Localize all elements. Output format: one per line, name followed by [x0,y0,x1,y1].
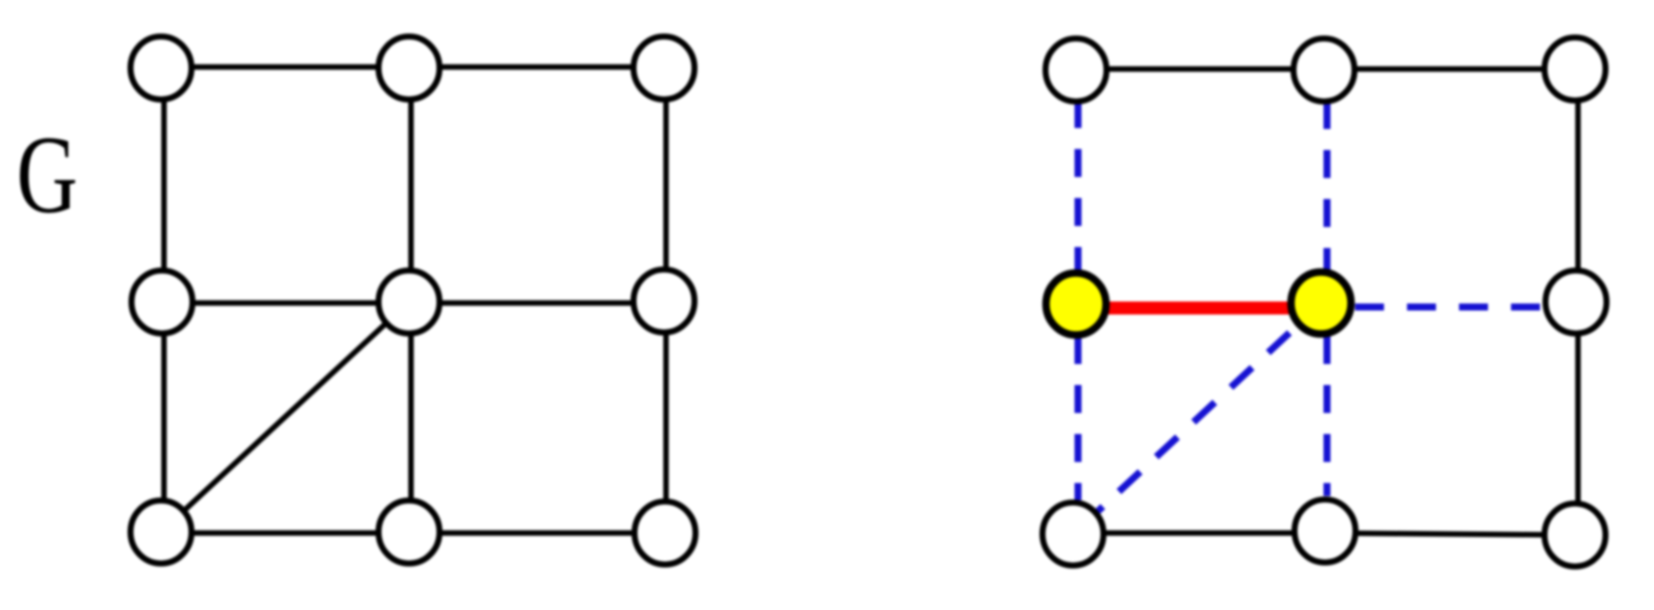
edge G bottom-left to bottom-mid [161,530,409,536]
node H top-mid [1294,39,1355,102]
node H mid-left (yellow endpoint) [1046,273,1106,335]
node H top-left [1046,39,1107,102]
node H mid-right [1546,271,1607,334]
node H bottom-right [1545,504,1606,567]
dashed edge H top-mid to center [1324,101,1331,270]
edge G bottom-mid to bottom-right [409,530,665,536]
edge G top-left to top-mid [161,64,409,70]
edge H bottom-mid to bottom-right [1325,533,1575,535]
node G bottom-right [635,502,696,565]
dashed edge H top-left to mid-left [1075,100,1082,270]
edge H mid-right to bottom-right [1575,302,1581,535]
node G mid-left [132,271,193,334]
edge G top-mid to center [408,68,414,302]
node G bottom-mid [379,501,440,564]
edge G center to mid-right [409,300,664,306]
edge G mid-right to bottom-right [663,301,669,533]
edge H top-mid to top-right [1324,66,1575,72]
edge G center to bottom-mid [408,302,414,532]
node G top-mid [379,37,440,100]
edge G mid-left to center [162,300,409,306]
edge G top-mid to top-right [409,64,664,70]
node H bottom-left [1043,503,1104,566]
node H center (yellow endpoint) [1291,272,1351,334]
red edge H mid-left to center (contracted edge) [1076,302,1322,315]
dashed edge H center to bottom-mid [1324,336,1331,496]
dashed edge H center to mid-right [1355,304,1544,311]
edge G top-left to mid-left [161,68,167,302]
edge H bottom-left to bottom-mid [1073,530,1325,536]
edge H top-left to top-mid [1076,66,1324,72]
dashed edge H mid-left to bottom-left [1075,336,1082,500]
node H bottom-mid [1295,500,1356,563]
node G bottom-left [131,501,192,564]
node H top-right [1545,38,1606,101]
node G center [379,271,440,334]
svg-text:G: G [17,114,78,237]
node G top-right [634,37,695,100]
edge G diagonal bottom-left to center [161,302,409,532]
edge G mid-left to bottom-left [161,302,167,532]
edge G top-right to mid-right [663,68,669,301]
dashed edge H diagonal bottom-left to center [1097,322,1301,512]
edge H top-right to mid-right [1575,69,1581,302]
node G mid-right [634,270,695,333]
node G top-left [131,37,192,100]
